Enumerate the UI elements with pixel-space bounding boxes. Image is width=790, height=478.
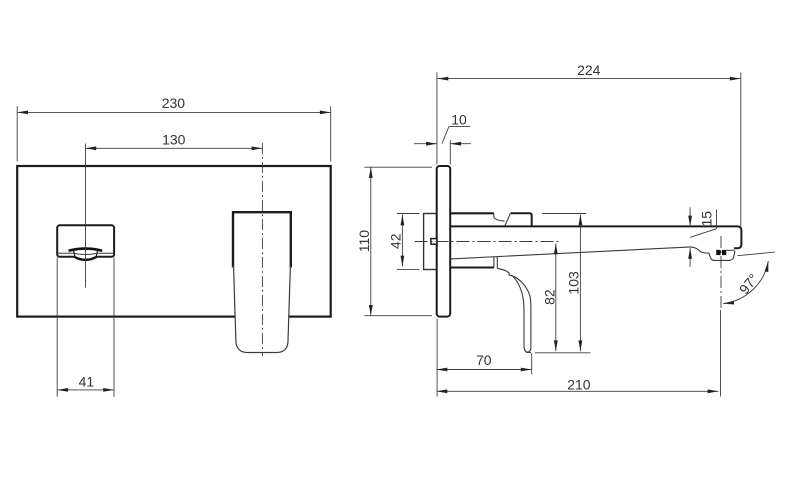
aerator top line: [726, 249, 735, 251]
svg-text:10: 10: [451, 112, 467, 128]
svg-text:224: 224: [577, 62, 601, 78]
dim 230 extension lines: [17, 106, 331, 161]
aerator insert: [716, 250, 720, 255]
dim 10 leader: [442, 127, 470, 144]
handle inner curve side: [513, 276, 531, 352]
dim 103 top extension: [542, 213, 586, 215]
dim 70 extensions: [437, 319, 532, 397]
cap slant: [505, 213, 511, 226]
set screw: [431, 239, 437, 245]
svg-text:130: 130: [162, 131, 186, 147]
dim 41: [57, 389, 114, 391]
wall plate side: [437, 166, 451, 317]
dim 42 extensions: [397, 214, 420, 270]
spout top and tip: [450, 226, 741, 248]
svg-text:110: 110: [356, 230, 372, 253]
svg-text:42: 42: [388, 233, 404, 249]
handle lever top side: [450, 212, 494, 214]
body bottom side: [450, 267, 494, 269]
angle 97 reference line: [737, 252, 774, 256]
dim 230: [17, 111, 331, 113]
aerator inner arc: [74, 253, 96, 254]
handle escutcheon front: [233, 212, 291, 267]
svg-text:15: 15: [699, 211, 715, 227]
dim 224: [438, 78, 741, 80]
dim 210: [437, 390, 719, 392]
svg-text:41: 41: [79, 373, 95, 389]
dim 15 extension: [716, 210, 718, 229]
spout bottom thin line: [57, 252, 114, 254]
centerline horizontal: [415, 241, 562, 243]
svg-text:103: 103: [565, 271, 581, 295]
lever front edge: [493, 213, 495, 217]
svg-text:210: 210: [567, 376, 591, 392]
svg-text:230: 230: [162, 95, 186, 111]
valve body in wall: [424, 214, 437, 270]
aerator centerline: [720, 236, 722, 310]
handle outer curve side: [497, 268, 531, 352]
aerator side: [709, 251, 735, 260]
aerator cup front (white mask): [73, 250, 97, 259]
spout underside slope: [451, 247, 709, 259]
spout block front: [57, 225, 114, 256]
handle grip front: [234, 265, 291, 353]
angle 97 arc: [723, 261, 768, 304]
dim 130: [85, 147, 262, 149]
wall plate front: [17, 166, 331, 317]
dim 70: [437, 369, 532, 371]
dim 210 right extension: [720, 310, 722, 397]
dim 224 extensions: [437, 72, 741, 226]
handle centerline front: [261, 143, 263, 356]
handle front (white fill): [233, 212, 291, 353]
dim 82: [555, 243, 557, 351]
lever front arc: [494, 218, 505, 221]
tip far edge slant: [690, 229, 716, 238]
dim 103: [579, 215, 581, 352]
aerator flange front: [69, 249, 103, 251]
aerator cup bottom: [75, 257, 97, 260]
svg-text:70: 70: [476, 352, 492, 368]
dim 103 bottom extension: [535, 352, 591, 354]
aerator cup sides: [73, 250, 97, 257]
dim 110: [370, 167, 372, 316]
svg-text:82: 82: [541, 289, 557, 305]
dim 41 extension lines: [57, 258, 114, 397]
dim 10 lines: [414, 143, 471, 145]
dim 10 extension right: [449, 140, 451, 164]
dim 15: [689, 207, 691, 267]
cartridge cap top: [511, 213, 532, 227]
spout centerline front: [85, 144, 87, 288]
dim 42: [401, 215, 403, 267]
dim 110 extensions: [364, 167, 432, 316]
handle neck side: [494, 256, 497, 268]
